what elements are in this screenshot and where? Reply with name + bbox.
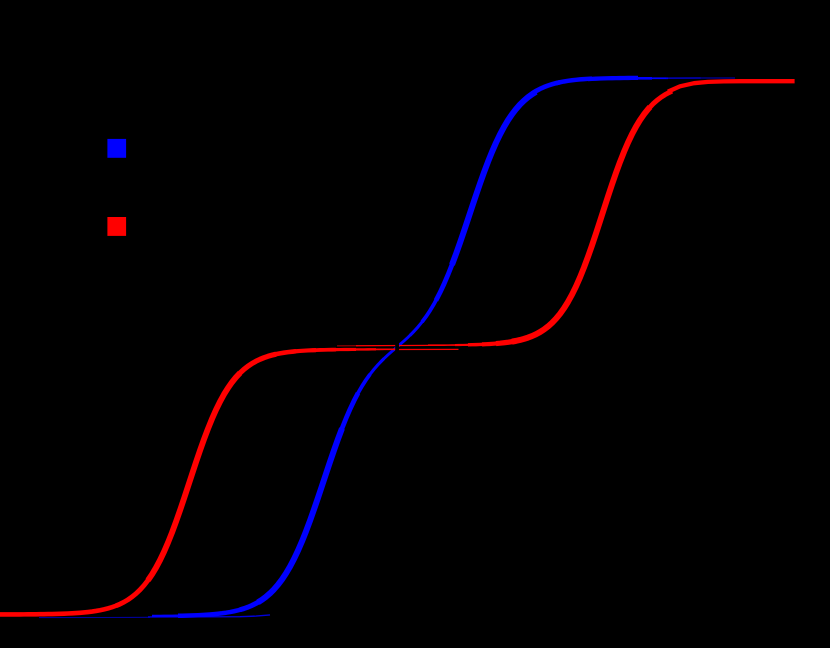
red upper branch w5.0 — [645, 91, 672, 113]
black center cross marker occluding the crossing — [395, 343, 399, 353]
blue curve w4.7 — [532, 82, 560, 93]
red upper branch w3.4 — [468, 343, 484, 347]
red lower branch w5.9 — [148, 373, 240, 580]
blue curve w3.8 — [354, 374, 370, 400]
blue curve w2.6 — [152, 614, 186, 617]
red lower branch w4.9 — [116, 574, 152, 605]
blue curve w1.7 — [650, 77, 668, 79]
red lower branch w4.6 — [0, 603, 122, 614]
blue curve w2.6 — [634, 77, 652, 80]
blue curve w6.0 — [452, 92, 536, 265]
red upper branch thin lead — [356, 344, 430, 346]
legend marker square series 1 (blue) — [107, 139, 126, 158]
blue top thin tail — [666, 77, 701, 79]
blue curve w6.0 — [258, 428, 342, 602]
red lower branch w3.2 — [332, 348, 356, 351]
red upper branch w4.2 — [482, 343, 498, 344]
blue curve w4.3 — [588, 78, 638, 79]
red lower branch thin end — [396, 348, 459, 350]
blue bottom dark sliver tail — [39, 616, 150, 618]
blue curve w4.5 — [178, 609, 244, 616]
red upper branch dark thin start — [337, 345, 358, 347]
blue curve w4.8 — [338, 393, 358, 439]
blue curve w4.8 — [436, 254, 456, 300]
blue curve w5.0 — [240, 600, 262, 610]
red upper branch w6.0 — [512, 107, 650, 342]
blue bottom thin tail — [148, 615, 270, 617]
red upper branch w2.2 — [455, 344, 472, 347]
blue curve w3.1 — [366, 359, 384, 380]
legend marker square series 2 (red) — [107, 217, 126, 236]
red lower branch w5.2 — [236, 354, 276, 377]
red upper branch w1.6 — [428, 344, 458, 346]
red upper branch w5.2 — [496, 341, 514, 343]
blue curve w2.9 — [380, 331, 414, 362]
red upper branch knee to plateau — [668, 81, 795, 91]
red lower branch w3.8 — [312, 348, 336, 352]
blue curve w3.8 — [422, 293, 440, 322]
red lower branch w1.7 — [372, 348, 398, 350]
blue top thin end — [700, 77, 735, 79]
red lower branch w2.4 — [352, 348, 376, 351]
red lower branch w4.6 — [272, 351, 296, 355]
red lower branch w4.2 — [292, 350, 316, 352]
blue curve w3.1 — [410, 317, 426, 336]
blue curve w4.5 — [556, 79, 592, 84]
